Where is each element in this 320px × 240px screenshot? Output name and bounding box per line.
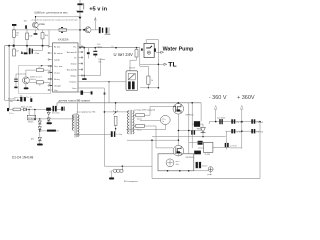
- resistor R0 horizontal: [59, 27, 66, 33]
- svg-text:Вых имп A: Вых имп A: [67, 68, 77, 71]
- wire: verticals to bus: [14, 26, 49, 46]
- transformer T2: [127, 110, 134, 135]
- node: [39, 130, 41, 132]
- node dots on bus: [13, 45, 15, 47]
- diode D5 power: [46, 108, 51, 111]
- node: small arrow: [17, 99, 19, 101]
- wire: return corner: [104, 165, 152, 167]
- svg-text:2х22н: 2х22н: [202, 165, 207, 167]
- svg-text:47мк: 47мк: [35, 53, 40, 55]
- capacitor C1: [12, 24, 16, 26]
- resistor R10: [114, 116, 117, 125]
- ground: [37, 144, 43, 146]
- svg-text:+5 v in: +5 v in: [89, 6, 107, 12]
- capacitor C5 electrolytic input: [76, 0, 84, 48]
- svg-text:+: +: [29, 47, 30, 49]
- resistor R1: [12, 30, 15, 38]
- svg-text:1k: 1k: [16, 35, 18, 37]
- diode D10: [194, 151, 201, 155]
- svg-text:TL431: TL431: [204, 154, 211, 156]
- diode D8: [201, 124, 206, 137]
- node: [79, 29, 81, 31]
- svg-text:- 360 V: - 360 V: [209, 95, 227, 101]
- diode D6: [38, 137, 41, 143]
- svg-text:Осц. вых: Осц. вых: [54, 66, 62, 68]
- node: -360 terminal arrow: [214, 105, 217, 121]
- svg-text:Компен: Компен: [70, 81, 77, 83]
- svg-text:KA3525A: KA3525A: [58, 39, 69, 42]
- diode D4 chain: [38, 118, 41, 137]
- resistor R8: [140, 66, 150, 88]
- capacitor C12: [30, 98, 32, 102]
- svg-text:1к: 1к: [39, 84, 41, 86]
- wire: +5 feed to control: [36, 17, 81, 22]
- svg-text:BC546: BC546: [39, 24, 46, 26]
- svg-text:10k: 10k: [45, 35, 48, 37]
- ground: [109, 177, 114, 179]
- resistor R3: [41, 33, 44, 39]
- svg-text:U пит 24V: U пит 24V: [114, 52, 134, 57]
- wire: long top line: [57, 103, 201, 106]
- svg-text:51ом: 51ом: [137, 118, 142, 120]
- wire: IC output A to relay: [84, 81, 126, 83]
- node: arrow at transistor top: [35, 16, 36, 18]
- capacitor C2 vertical: [25, 25, 27, 29]
- wire: pump feed: [146, 40, 158, 88]
- wire: bus row: [5, 46, 49, 109]
- capacitor C20: [251, 129, 264, 134]
- wire: [115, 125, 117, 131]
- capacitor C15 horizontal: [40, 130, 59, 132]
- node: fan symbol: [166, 159, 180, 167]
- op-amp U2 regulator: [27, 115, 35, 120]
- node dots: [167, 170, 169, 172]
- capacitor C2b under Q1: [34, 33, 38, 35]
- svg-text:С7 3н3: С7 3н3: [230, 146, 237, 148]
- wire: +5v arrow branch: [94, 17, 97, 30]
- capacitor C8b small: [87, 48, 90, 59]
- capacitor C18: [231, 119, 244, 124]
- svg-text:вент: вент: [176, 161, 180, 163]
- resistor R2: [26, 33, 29, 40]
- diode D1: [24, 108, 47, 111]
- diode D2: [47, 112, 50, 115]
- U1 left pins: [48, 46, 53, 91]
- svg-text:С8 3н3: С8 3н3: [257, 122, 264, 124]
- svg-text:100кГц: 100кГц: [30, 79, 37, 81]
- svg-text:КД522: КД522: [97, 46, 102, 48]
- svg-text:Сг: Сг: [111, 46, 113, 48]
- node: pump terminal: [156, 51, 164, 53]
- transistor Q1: [32, 22, 45, 30]
- resistor R6: [26, 69, 49, 73]
- svg-text:12в: 12в: [176, 164, 179, 166]
- node: arrow on +5 rail: [79, 17, 82, 20]
- svg-text:Запуск: Запуск: [70, 75, 76, 77]
- node: K1 terminals: [141, 48, 143, 50]
- capacitor C10: [14, 74, 18, 88]
- svg-text:D1-D4 1N4148: D1-D4 1N4148: [12, 156, 33, 160]
- svg-text:1н: 1н: [30, 97, 32, 99]
- svg-text:1k: 1k: [151, 80, 153, 82]
- svg-text:Ct осц: Ct осц: [54, 71, 61, 74]
- capacitor C23: [191, 130, 195, 134]
- node: [83, 75, 85, 77]
- transformer T1: [72, 103, 79, 138]
- capacitor C22 bank: [196, 162, 202, 168]
- svg-text:1к: 1к: [38, 67, 40, 69]
- node: TL terminal: [140, 48, 167, 67]
- svg-text:(R): (R): [24, 21, 27, 23]
- U1 right pins: [78, 46, 84, 88]
- capacitor C21: [225, 143, 238, 148]
- svg-text:Вх неинв: Вх неинв: [54, 53, 62, 55]
- resistor R11 gate: [133, 114, 150, 117]
- svg-text:35в: 35в: [98, 61, 101, 63]
- svg-text:5в: 5в: [162, 121, 164, 123]
- relay K2 box: [126, 71, 138, 91]
- capacitor C9: [78, 91, 93, 95]
- svg-text:10k: 10k: [29, 36, 32, 38]
- node: fan box: [158, 154, 194, 171]
- wire: ellipse links: [126, 121, 165, 130]
- relay K1 contact: [146, 46, 152, 55]
- op-amp U3 TL431: [189, 142, 230, 152]
- resistor R5: [130, 48, 138, 71]
- wire: lower rail: [127, 140, 178, 178]
- capacitor C18b: [231, 129, 243, 134]
- resistor R4: [13, 46, 16, 56]
- svg-text:Vcc: Vcc: [73, 46, 76, 48]
- node: osc box frame: [19, 65, 51, 93]
- wire: output loop bottom: [152, 178, 260, 180]
- svg-text:78L05: 78L05: [28, 122, 34, 124]
- capacitor C17: [219, 119, 222, 124]
- wire: mid rail: [152, 136, 226, 138]
- label: U1 left pin names: [54, 46, 62, 92]
- svg-text:IRFP460: IRFP460: [186, 115, 195, 117]
- diode D7 power: [192, 103, 203, 131]
- svg-text:Общий: Общий: [54, 84, 61, 87]
- svg-text:1мк 400в: 1мк 400в: [217, 118, 225, 120]
- capacitor C16: [111, 131, 116, 137]
- svg-text:Вых имп B: Вых имп B: [67, 52, 77, 54]
- label: U1 right pin names: [67, 46, 78, 90]
- node dots: [79, 47, 81, 49]
- svg-text:Vc: Vc: [74, 57, 76, 59]
- node: +360 terminal arrow: [241, 105, 244, 148]
- svg-text:ВЧ блокировка: ВЧ блокировка: [124, 181, 139, 183]
- node: [28, 109, 30, 111]
- wire: [91, 29, 99, 31]
- node: feedback loop ellipse: [160, 116, 170, 125]
- svg-text:TL: TL: [168, 62, 176, 69]
- transistor Q5 mosfet: [173, 145, 184, 156]
- wire: lower link: [140, 87, 158, 89]
- svg-text:1н 1кв: 1н 1кв: [116, 134, 122, 136]
- resistor R12 gate: [133, 124, 156, 127]
- ground blob under pin: [82, 78, 87, 80]
- wire: horizontal rail y30: [13, 29, 86, 31]
- svg-text:датчик тока в ВВ трансе: датчик тока в ВВ трансе: [59, 99, 91, 103]
- svg-text:ШИМ рег. длительности имп.: ШИМ рег. длительности имп.: [35, 12, 69, 15]
- capacitor C19: [251, 119, 264, 124]
- wire: [29, 110, 49, 119]
- transistor Q3: [23, 77, 30, 84]
- svg-text:трансформатор ТВС: трансформатор ТВС: [77, 110, 97, 113]
- capacitor C4 polarized: [29, 46, 43, 55]
- resistor R9: [9, 108, 23, 111]
- svg-text:(R): (R): [31, 139, 34, 141]
- inductor L1: [109, 166, 123, 177]
- wire: 24V bus: [80, 47, 140, 49]
- wire: Vcc pin to 24V bus: [83, 47, 85, 76]
- diode D3: [47, 118, 50, 122]
- wire: snubber tap to T2: [104, 111, 127, 113]
- svg-text:РЭС49: РЭС49: [129, 67, 135, 69]
- op-amp U1 body: [53, 43, 79, 92]
- wire: multiplier rails: [209, 122, 260, 179]
- snubber top diode mark: [113, 102, 118, 115]
- node: junction mark: [104, 92, 106, 94]
- svg-text:С9 3н3: С9 3н3: [257, 132, 264, 134]
- svg-text:Синхр: Синхр: [54, 59, 61, 61]
- svg-text:С6 3н3: С6 3н3: [237, 122, 244, 124]
- wire: [230, 147, 242, 149]
- transistor Q4 mosfet: [173, 104, 184, 115]
- node: arrow on box top: [41, 65, 43, 67]
- capacitor C3: [21, 46, 28, 55]
- relay K1 box: [144, 43, 154, 57]
- capacitor C8 filter: [93, 48, 97, 58]
- resistor R7: [29, 81, 49, 86]
- svg-text:КРЕН: КРЕН: [28, 118, 34, 120]
- ground: [47, 122, 52, 124]
- svg-text:1 5 в: 1 5 в: [9, 113, 13, 115]
- wire: gate routes: [150, 106, 173, 147]
- svg-text:Земля: Земля: [71, 63, 77, 65]
- svg-text:Вх инв: Вх инв: [54, 46, 60, 48]
- capacitor C11: [20, 97, 26, 102]
- svg-text:устройство управления скорость: устройство управления скоростью вентилят…: [32, 18, 79, 21]
- svg-text:С 3н3: С 3н3: [237, 132, 243, 134]
- svg-text:затворы IGBT модулей: затворы IGBT модулей: [134, 108, 155, 111]
- svg-text:Water Pump: Water Pump: [163, 47, 194, 53]
- wire: osc internals: [16, 70, 26, 87]
- capacitor C7 electrolytic: [104, 28, 110, 35]
- capacitor C14a: [51, 106, 61, 112]
- capacitor C13: [7, 108, 13, 115]
- ground: [24, 87, 29, 89]
- capacitor C6 electrolytic: [99, 27, 103, 33]
- wire: primary bottom to snubber node: [74, 133, 111, 135]
- wire: right rails: [189, 103, 192, 154]
- wire: [5, 99, 21, 101]
- node: spark gap: [194, 167, 213, 174]
- wire: gnd link: [84, 59, 100, 79]
- wire: half bridge: [178, 103, 201, 156]
- svg-text:+ 360V: + 360V: [237, 95, 255, 101]
- svg-text:Rt осц: Rt осц: [54, 78, 61, 81]
- transistor Q2: [83, 27, 91, 33]
- node: pin arrows: [50, 65, 52, 66]
- svg-text:IRFP460: IRFP460: [186, 157, 195, 159]
- diode D9: [198, 141, 203, 145]
- wire: to T1 primary: [35, 118, 74, 120]
- capacitor C14b: [61, 107, 64, 111]
- wire: IC output B down: [84, 82, 109, 166]
- svg-text:47м 16в: 47м 16в: [52, 113, 59, 115]
